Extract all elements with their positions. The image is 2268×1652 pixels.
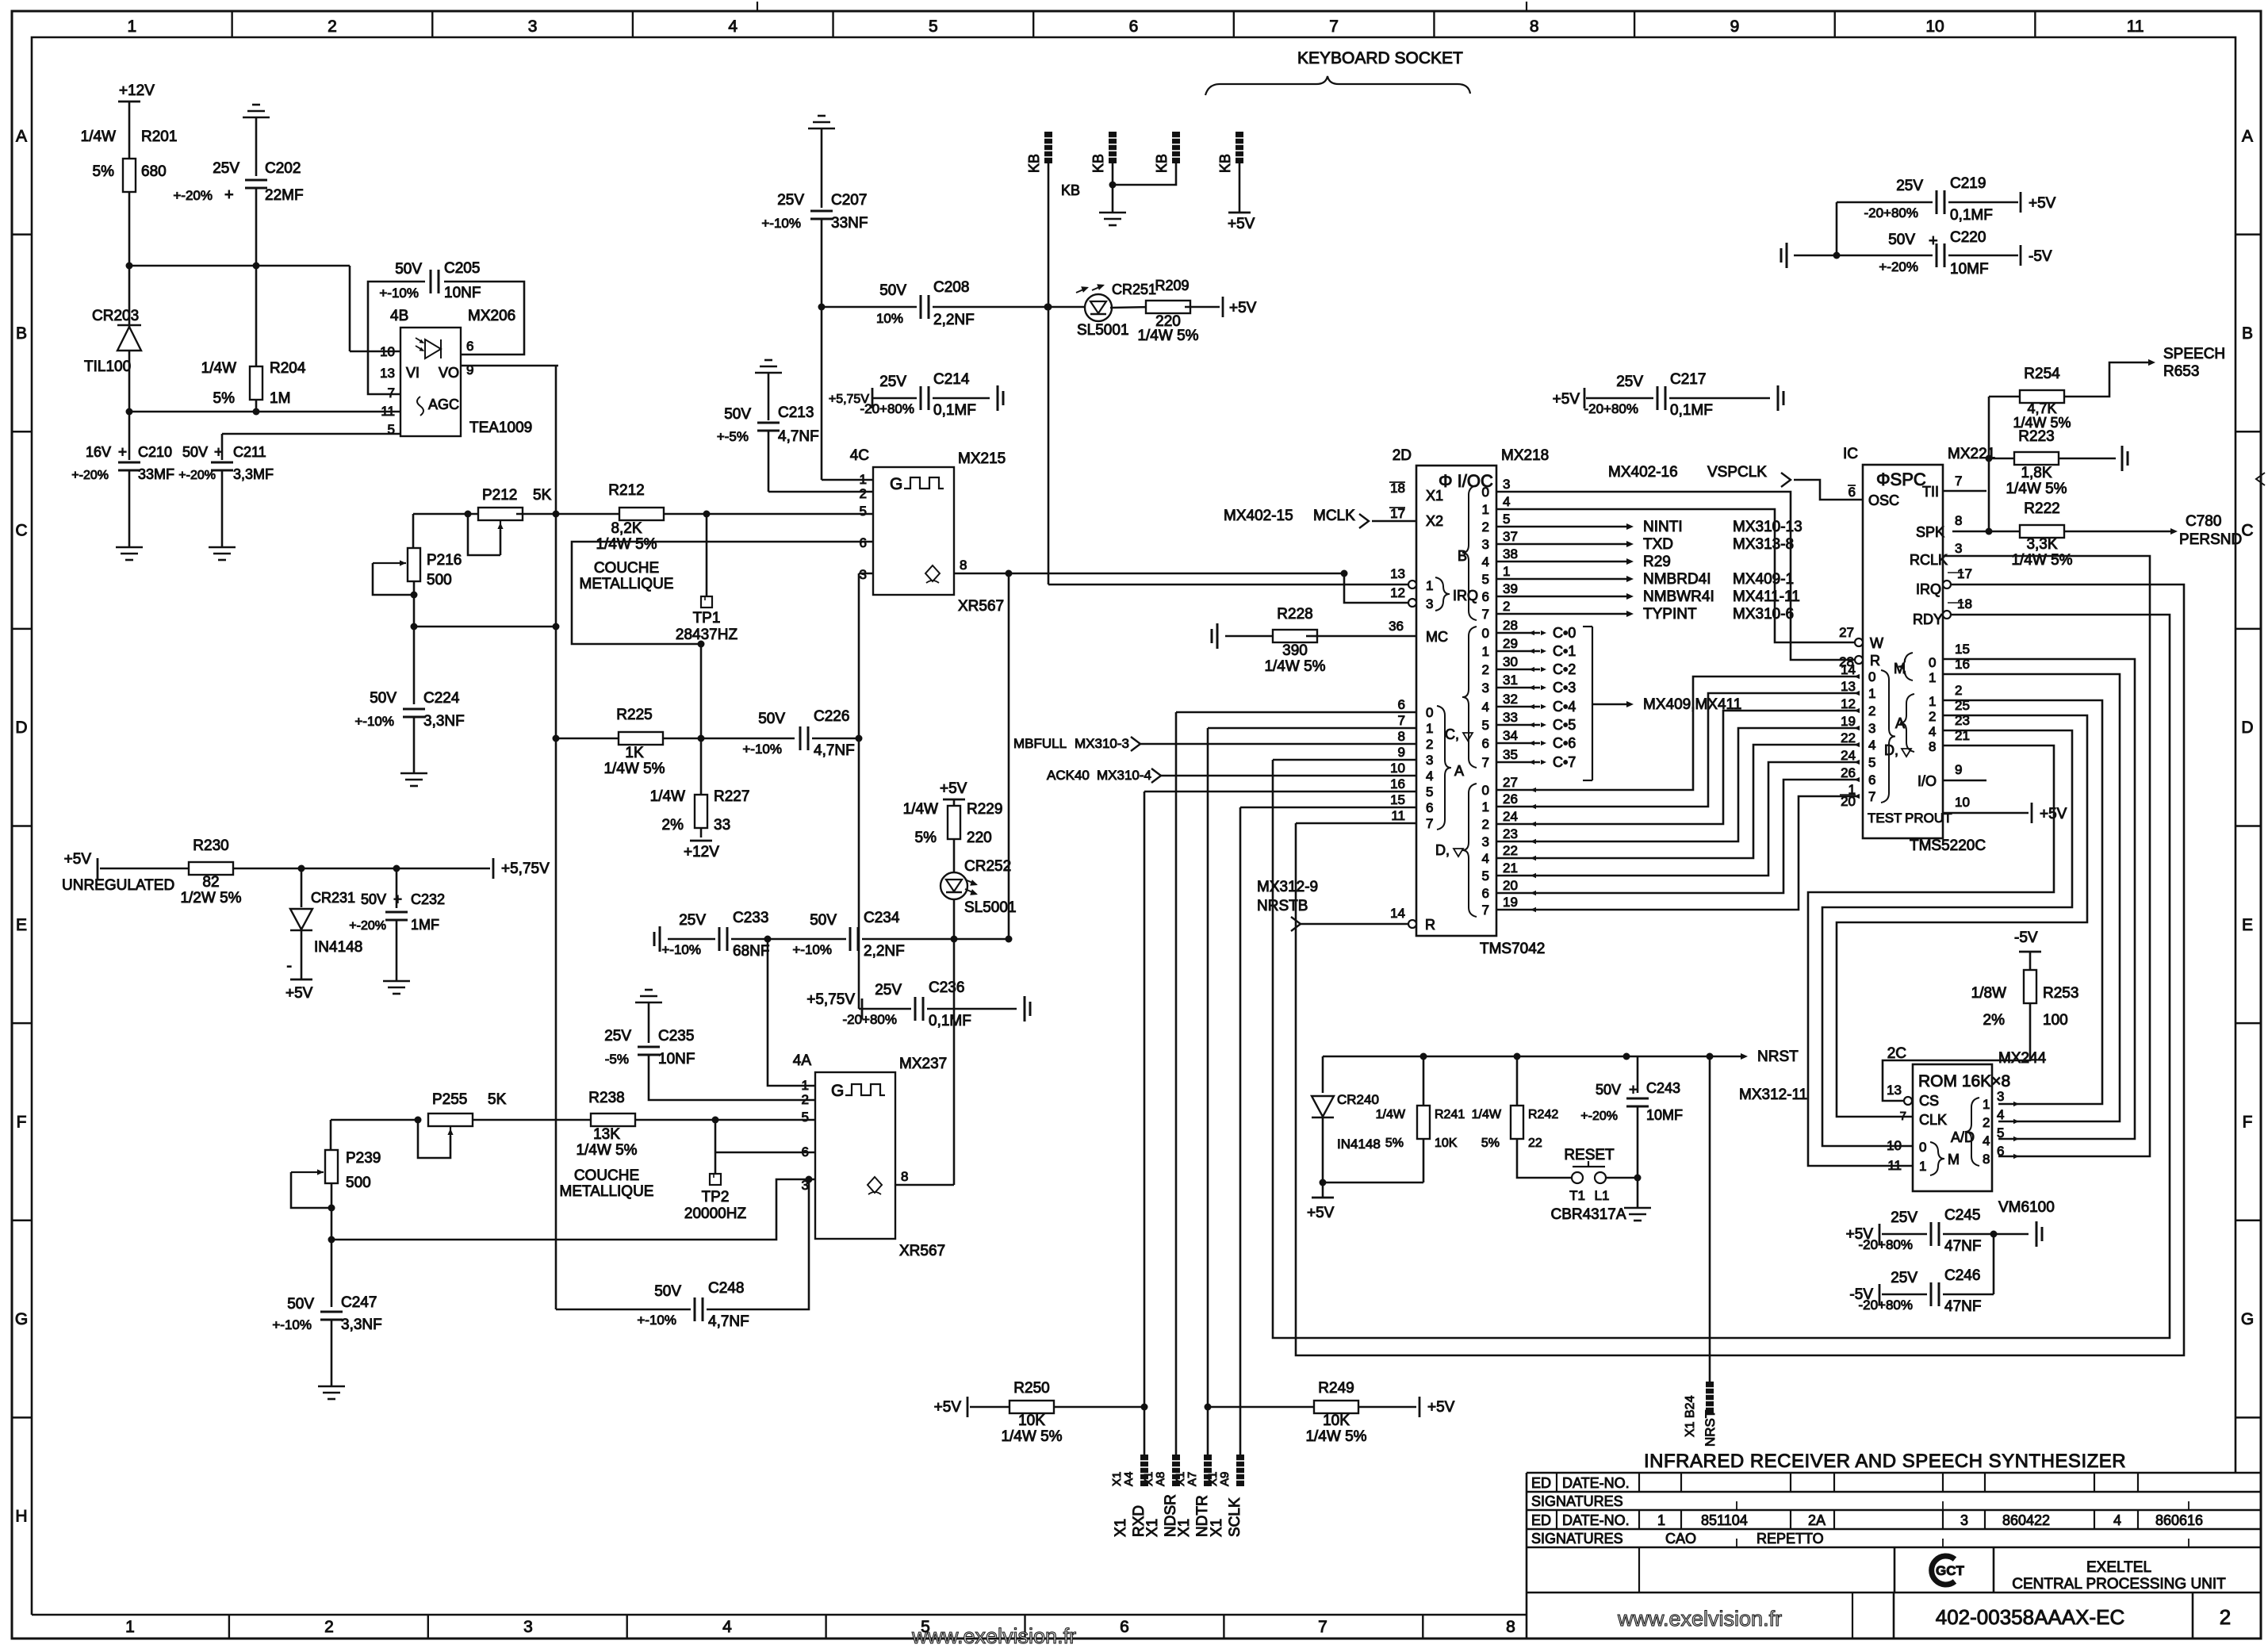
- svg-text:0: 0: [1482, 783, 1489, 798]
- svg-text:4,7NF: 4,7NF: [778, 428, 819, 445]
- svg-text:SPK: SPK: [1916, 524, 1944, 540]
- svg-text:1: 1: [1482, 799, 1489, 815]
- svg-text:+5V: +5V: [940, 780, 967, 797]
- svg-text:1/4W: 1/4W: [1472, 1108, 1502, 1121]
- svg-text:+5V: +5V: [1553, 391, 1580, 408]
- svg-text:C•7: C•7: [1553, 754, 1576, 770]
- svg-text:3: 3: [1426, 753, 1433, 768]
- svg-text:VSPCLK: VSPCLK: [1707, 464, 1767, 481]
- svg-text:IRQ: IRQ: [1453, 588, 1478, 604]
- svg-text:10MF: 10MF: [1646, 1107, 1683, 1123]
- svg-text:20: 20: [1503, 878, 1518, 893]
- svg-text:MX310-4: MX310-4: [1097, 768, 1151, 783]
- svg-text:23: 23: [1503, 826, 1518, 841]
- svg-text:GCT: GCT: [1936, 1563, 1965, 1578]
- svg-text:5: 5: [802, 1110, 809, 1125]
- svg-text:1: 1: [1426, 721, 1433, 736]
- svg-text:50V: 50V: [758, 711, 785, 727]
- svg-text:KB: KB: [1217, 154, 1233, 173]
- svg-text:X1: X1: [1113, 1519, 1129, 1537]
- svg-text:10K: 10K: [1323, 1412, 1350, 1429]
- svg-text:10K: 10K: [1435, 1136, 1458, 1150]
- svg-text:C224: C224: [423, 690, 460, 707]
- svg-text:MX310-3: MX310-3: [1075, 736, 1129, 751]
- svg-text:2: 2: [1482, 662, 1489, 677]
- svg-text:1: 1: [802, 1078, 809, 1093]
- svg-text:50V: 50V: [724, 406, 751, 423]
- svg-text:+-10%: +-10%: [354, 714, 394, 729]
- svg-text:6: 6: [466, 339, 473, 354]
- svg-text:X2: X2: [1426, 513, 1443, 529]
- svg-text:2: 2: [1482, 519, 1489, 535]
- svg-text:1/4W: 1/4W: [903, 801, 938, 818]
- svg-text:C245: C245: [1944, 1207, 1980, 1224]
- svg-text:B: B: [1458, 548, 1467, 564]
- svg-text:2: 2: [860, 486, 867, 501]
- svg-text:19: 19: [1841, 714, 1856, 729]
- svg-text:25V: 25V: [604, 1028, 631, 1044]
- svg-text:7: 7: [1482, 903, 1489, 918]
- svg-text:R254: R254: [2024, 366, 2060, 382]
- svg-text:2: 2: [1929, 709, 1936, 724]
- svg-text:A: A: [2242, 127, 2253, 145]
- svg-text:50V: 50V: [395, 261, 422, 278]
- svg-text:ED: ED: [1531, 1512, 1551, 1528]
- svg-text:MX237: MX237: [899, 1056, 947, 1072]
- svg-text:TIL100: TIL100: [84, 358, 131, 375]
- svg-text:+: +: [393, 891, 402, 908]
- svg-text:1/4W 5%: 1/4W 5%: [603, 761, 665, 777]
- svg-text:3: 3: [1482, 537, 1489, 552]
- svg-text:3,3NF: 3,3NF: [341, 1317, 382, 1333]
- svg-text:13: 13: [1841, 679, 1856, 694]
- svg-text:C205: C205: [444, 260, 480, 277]
- svg-text:0: 0: [1426, 705, 1433, 720]
- svg-text:390: 390: [1282, 642, 1308, 659]
- svg-text:-: -: [286, 957, 292, 975]
- svg-text:11: 11: [381, 404, 395, 419]
- svg-text:47NF: 47NF: [1944, 1238, 1981, 1255]
- svg-text:3: 3: [1426, 596, 1433, 611]
- svg-text:25V: 25V: [1891, 1209, 1917, 1226]
- svg-text:+5,75V: +5,75V: [501, 860, 550, 877]
- svg-text:+-20%: +-20%: [173, 188, 213, 203]
- svg-text:50V: 50V: [287, 1296, 314, 1313]
- svg-text:13K: 13K: [593, 1126, 620, 1143]
- svg-text:1: 1: [127, 17, 136, 36]
- svg-text:4C: 4C: [850, 447, 869, 464]
- svg-text:6: 6: [1997, 1144, 2004, 1159]
- svg-text:0,1MF: 0,1MF: [929, 1013, 971, 1029]
- svg-text:F: F: [2243, 1113, 2253, 1131]
- svg-text:10NF: 10NF: [444, 285, 481, 301]
- svg-text:3: 3: [1868, 721, 1875, 736]
- svg-text:1/4W: 1/4W: [201, 360, 236, 377]
- svg-text:C210: C210: [138, 444, 172, 460]
- svg-text:TMS5220C: TMS5220C: [1910, 837, 1986, 854]
- svg-text:VI: VI: [406, 365, 420, 381]
- svg-text:+5V: +5V: [1307, 1205, 1335, 1221]
- svg-text:10NF: 10NF: [658, 1051, 695, 1067]
- svg-text:1: 1: [1482, 502, 1489, 517]
- svg-text:0: 0: [1482, 626, 1489, 641]
- svg-text:D: D: [2241, 719, 2253, 737]
- svg-text:CENTRAL PROCESSING UNIT: CENTRAL PROCESSING UNIT: [2012, 1576, 2226, 1593]
- svg-text:MX221: MX221: [1948, 446, 1995, 462]
- svg-text:5: 5: [1503, 512, 1510, 527]
- svg-text:ROM 16K×8: ROM 16K×8: [1918, 1072, 2010, 1090]
- svg-text:9: 9: [1955, 762, 1962, 777]
- svg-text:+-20%: +-20%: [71, 469, 109, 482]
- svg-text:A: A: [16, 127, 27, 145]
- svg-text:1MF: 1MF: [411, 917, 439, 933]
- svg-text:3: 3: [1955, 541, 1962, 556]
- svg-text:82: 82: [202, 874, 219, 891]
- svg-text:500: 500: [427, 572, 452, 588]
- svg-text:17: 17: [1957, 566, 1972, 581]
- svg-text:UNREGULATED: UNREGULATED: [62, 877, 174, 894]
- svg-text:7: 7: [1955, 473, 1962, 489]
- svg-text:13: 13: [1390, 566, 1405, 581]
- svg-text:C236: C236: [929, 979, 964, 996]
- svg-text:R250: R250: [1013, 1380, 1049, 1397]
- svg-text:15: 15: [1955, 642, 1970, 657]
- svg-text:R653: R653: [2163, 363, 2199, 380]
- svg-text:-20+80%: -20+80%: [1584, 401, 1638, 416]
- svg-text:+5V: +5V: [2029, 195, 2056, 212]
- svg-text:29: 29: [1503, 636, 1518, 651]
- svg-text:1/4W 5%: 1/4W 5%: [1137, 328, 1198, 344]
- svg-text:C247: C247: [341, 1294, 377, 1311]
- svg-text:CAO: CAO: [1665, 1531, 1696, 1547]
- svg-text:C•1: C•1: [1553, 643, 1576, 659]
- svg-text:4: 4: [1868, 738, 1875, 753]
- svg-text:6: 6: [1848, 485, 1856, 500]
- svg-text:10: 10: [1390, 761, 1405, 776]
- svg-text:+: +: [1929, 232, 1938, 250]
- svg-text:402-00358AAAX-EC: 402-00358AAAX-EC: [1936, 1605, 2124, 1629]
- svg-text:5%: 5%: [93, 163, 115, 180]
- svg-text:D,: D,: [1884, 742, 1898, 758]
- svg-text:27: 27: [1839, 625, 1854, 640]
- svg-text:NRST: NRST: [1703, 1410, 1718, 1447]
- svg-text:5: 5: [1482, 868, 1489, 883]
- svg-text:RDY: RDY: [1913, 611, 1943, 627]
- svg-text:XR567: XR567: [899, 1243, 945, 1259]
- svg-text:KB: KB: [1154, 154, 1170, 173]
- svg-text:A9: A9: [1218, 1472, 1232, 1486]
- svg-text:C232: C232: [411, 891, 445, 907]
- svg-text:+12V: +12V: [684, 844, 719, 860]
- svg-text:7: 7: [1482, 755, 1489, 770]
- svg-text:5K: 5K: [533, 487, 552, 504]
- svg-text:5%: 5%: [1385, 1136, 1404, 1150]
- svg-text:30: 30: [1503, 654, 1518, 669]
- svg-text:R29: R29: [1643, 554, 1671, 570]
- svg-text:CR240: CR240: [1337, 1092, 1379, 1107]
- svg-text:L1: L1: [1595, 1188, 1610, 1203]
- svg-text:C211: C211: [233, 444, 266, 460]
- svg-text:+5,75V: +5,75V: [806, 991, 855, 1008]
- svg-text:1: 1: [1426, 578, 1433, 593]
- svg-text:-20+80%: -20+80%: [842, 1012, 897, 1027]
- svg-text:TXD: TXD: [1643, 536, 1673, 553]
- svg-text:68NF: 68NF: [733, 943, 769, 960]
- svg-text:0: 0: [1919, 1140, 1926, 1155]
- svg-text:SL5001: SL5001: [964, 899, 1017, 916]
- svg-text:MBFULL: MBFULL: [1013, 736, 1067, 751]
- svg-text:IC: IC: [1843, 446, 1858, 462]
- svg-text:0: 0: [1482, 485, 1489, 500]
- svg-text:10MF: 10MF: [1950, 261, 1989, 278]
- svg-text:4,7NF: 4,7NF: [708, 1313, 749, 1330]
- svg-text:SCLK: SCLK: [1227, 1497, 1243, 1537]
- svg-text:+5V: +5V: [934, 1399, 962, 1416]
- svg-text:PERSND: PERSND: [2179, 531, 2242, 548]
- svg-text:DATE-NO.: DATE-NO.: [1562, 1512, 1630, 1528]
- svg-text:MX402-15: MX402-15: [1224, 508, 1293, 524]
- svg-text:4: 4: [2113, 1512, 2121, 1528]
- svg-text:2: 2: [1955, 683, 1962, 698]
- svg-text:C243: C243: [1646, 1080, 1680, 1096]
- svg-text:4: 4: [1997, 1107, 2004, 1122]
- svg-text:G: G: [831, 1082, 844, 1100]
- svg-text:P216: P216: [427, 552, 462, 569]
- svg-text:50V: 50V: [810, 912, 837, 929]
- svg-text:1/4W 5%: 1/4W 5%: [576, 1142, 637, 1159]
- svg-text:1/4W 5%: 1/4W 5%: [1001, 1428, 1062, 1445]
- svg-text:EXELTEL: EXELTEL: [2086, 1559, 2151, 1576]
- svg-text:IN4148: IN4148: [1337, 1136, 1381, 1152]
- svg-text:3,3NF: 3,3NF: [423, 713, 465, 730]
- svg-text:28: 28: [1503, 618, 1518, 633]
- svg-text:14: 14: [1390, 906, 1405, 921]
- svg-text:50V: 50V: [1888, 232, 1915, 248]
- svg-text:VO: VO: [439, 365, 459, 381]
- svg-text:47NF: 47NF: [1944, 1298, 1981, 1315]
- svg-text:+: +: [1629, 1082, 1638, 1098]
- svg-text:26: 26: [1841, 765, 1856, 780]
- svg-text:1/4W 5%: 1/4W 5%: [2006, 481, 2067, 497]
- svg-text:+-10%: +-10%: [379, 286, 419, 301]
- svg-text:2: 2: [324, 1618, 334, 1636]
- svg-text:+-10%: +-10%: [761, 216, 801, 231]
- svg-text:METALLIQUE: METALLIQUE: [560, 1183, 654, 1200]
- svg-text:22: 22: [1503, 843, 1518, 858]
- svg-text:MX310-13: MX310-13: [1733, 519, 1803, 535]
- svg-text:13: 13: [1887, 1083, 1902, 1098]
- svg-text:2: 2: [802, 1092, 809, 1107]
- svg-text:I/O: I/O: [1917, 773, 1937, 789]
- svg-text:IN4148: IN4148: [314, 939, 362, 956]
- svg-text:www.exelvision.fr: www.exelvision.fr: [911, 1624, 1076, 1648]
- svg-text:24: 24: [1503, 809, 1518, 824]
- svg-text:14: 14: [1841, 662, 1856, 677]
- svg-text:2%: 2%: [662, 817, 684, 834]
- svg-text:25V: 25V: [1891, 1270, 1917, 1286]
- svg-text:C•4: C•4: [1553, 699, 1576, 715]
- svg-text:50V: 50V: [879, 282, 906, 299]
- svg-text:6: 6: [1482, 886, 1489, 901]
- svg-text:1: 1: [860, 472, 867, 487]
- svg-text:33MF: 33MF: [138, 466, 174, 482]
- svg-text:C248: C248: [708, 1280, 744, 1297]
- svg-text:MX409-1: MX409-1: [1733, 571, 1794, 588]
- svg-text:C219: C219: [1950, 175, 1986, 192]
- svg-text:MX215: MX215: [958, 450, 1006, 467]
- svg-text:1: 1: [1482, 644, 1489, 659]
- svg-text:C780: C780: [2186, 513, 2221, 530]
- svg-text:500: 500: [346, 1175, 371, 1191]
- svg-text:5: 5: [860, 504, 867, 519]
- svg-text:6: 6: [1482, 589, 1489, 604]
- svg-text:R253: R253: [2043, 985, 2078, 1002]
- svg-text:X1: X1: [1426, 488, 1443, 504]
- svg-text:5: 5: [1997, 1125, 2004, 1140]
- svg-text:1: 1: [125, 1618, 135, 1636]
- svg-text:8,2K: 8,2K: [611, 520, 642, 537]
- svg-text:680: 680: [141, 163, 167, 180]
- svg-text:F: F: [17, 1113, 27, 1131]
- svg-text:851104: 851104: [1701, 1512, 1748, 1528]
- svg-text:-20+80%: -20+80%: [1858, 1297, 1913, 1313]
- svg-text:D: D: [15, 719, 27, 737]
- svg-text:2D: 2D: [1393, 447, 1412, 464]
- svg-text:C: C: [15, 522, 27, 540]
- svg-text:6: 6: [1398, 697, 1405, 712]
- svg-text:4: 4: [1482, 700, 1489, 715]
- svg-text:3: 3: [1503, 477, 1510, 492]
- svg-text:0: 0: [1868, 669, 1875, 684]
- svg-text:+-20%: +-20%: [1580, 1110, 1618, 1123]
- svg-text:26: 26: [1503, 792, 1518, 807]
- svg-text:1: 1: [1657, 1512, 1665, 1528]
- svg-text:33NF: 33NF: [831, 215, 868, 232]
- svg-text:1: 1: [1848, 782, 1856, 797]
- svg-text:+-10%: +-10%: [272, 1317, 312, 1332]
- svg-text:+5V: +5V: [1427, 1399, 1455, 1416]
- svg-text:5%: 5%: [915, 830, 937, 846]
- svg-text:T1: T1: [1569, 1188, 1585, 1203]
- svg-text:R: R: [1870, 653, 1880, 669]
- svg-text:12: 12: [1390, 585, 1405, 600]
- svg-text:TP2: TP2: [702, 1189, 730, 1205]
- svg-text:CS: CS: [1919, 1093, 1939, 1109]
- svg-text:C235: C235: [658, 1028, 694, 1044]
- svg-text:C: C: [2241, 522, 2253, 540]
- svg-text:VM6100: VM6100: [1998, 1199, 2055, 1216]
- svg-text:ΦSPC: ΦSPC: [1876, 470, 1926, 489]
- svg-text:R228: R228: [1277, 606, 1312, 623]
- svg-text:4: 4: [1983, 1133, 1990, 1148]
- svg-text:-20+80%: -20+80%: [860, 401, 914, 416]
- svg-text:CLK: CLK: [1919, 1112, 1947, 1128]
- svg-text:R209: R209: [1155, 278, 1189, 293]
- svg-text:7: 7: [1482, 607, 1489, 622]
- svg-text:CR231: CR231: [311, 890, 355, 906]
- svg-text:C208: C208: [933, 279, 969, 296]
- svg-text:R212: R212: [608, 482, 644, 499]
- svg-text:E: E: [2242, 916, 2253, 934]
- svg-text:MX206: MX206: [468, 308, 515, 324]
- svg-text:6: 6: [1868, 772, 1875, 788]
- svg-text:+: +: [214, 444, 223, 461]
- svg-text:9: 9: [1730, 17, 1740, 36]
- svg-text:8: 8: [960, 558, 967, 573]
- svg-text:OSC: OSC: [1868, 493, 1899, 508]
- svg-text:25V: 25V: [679, 912, 706, 929]
- svg-text:SIGNATURES: SIGNATURES: [1531, 1493, 1623, 1509]
- svg-text:G: G: [2241, 1310, 2254, 1328]
- svg-text:50V: 50V: [654, 1283, 681, 1300]
- svg-text:C202: C202: [265, 160, 301, 177]
- svg-text:8: 8: [1398, 729, 1405, 744]
- svg-text:4: 4: [1482, 554, 1489, 569]
- svg-text:R225: R225: [616, 707, 652, 723]
- svg-text:H: H: [15, 1508, 27, 1526]
- svg-text:3: 3: [523, 1618, 533, 1636]
- svg-text:28437HZ: 28437HZ: [676, 627, 738, 643]
- svg-text:16V: 16V: [86, 444, 111, 460]
- svg-text:R: R: [1425, 917, 1435, 933]
- svg-text:1/2W 5%: 1/2W 5%: [180, 890, 241, 906]
- svg-text:22: 22: [1528, 1136, 1542, 1150]
- svg-text:1: 1: [1929, 694, 1936, 709]
- svg-text:METALLIQUE: METALLIQUE: [580, 576, 674, 592]
- svg-text:+5V: +5V: [1228, 216, 1255, 232]
- svg-text:4A: 4A: [793, 1052, 812, 1069]
- svg-text:860422: 860422: [2002, 1512, 2050, 1528]
- svg-text:3: 3: [1960, 1512, 1968, 1528]
- svg-text:R222: R222: [2024, 500, 2059, 517]
- svg-text:4: 4: [1482, 851, 1489, 866]
- svg-text:C•2: C•2: [1553, 661, 1576, 677]
- svg-text:X1: X1: [1144, 1519, 1161, 1537]
- svg-text:C226: C226: [814, 708, 849, 725]
- svg-text:1/4W: 1/4W: [1376, 1108, 1406, 1121]
- svg-text:+-10%: +-10%: [742, 742, 782, 757]
- svg-text:A7: A7: [1186, 1472, 1199, 1486]
- svg-text:C213: C213: [778, 404, 814, 421]
- svg-text:C,: C,: [1445, 726, 1459, 742]
- svg-text:CR203: CR203: [92, 308, 139, 324]
- svg-text:1/4W 5%: 1/4W 5%: [596, 536, 657, 553]
- svg-text:-20+80%: -20+80%: [1858, 1237, 1913, 1252]
- svg-text:-5%: -5%: [605, 1052, 629, 1067]
- svg-text:20000HZ: 20000HZ: [684, 1205, 747, 1222]
- svg-text:+-10%: +-10%: [792, 942, 832, 957]
- svg-text:7: 7: [1868, 789, 1875, 804]
- svg-text:10: 10: [1925, 17, 1944, 36]
- svg-text:1/8W: 1/8W: [1971, 985, 2006, 1002]
- svg-text:SPEECH: SPEECH: [2163, 346, 2225, 362]
- svg-text:8: 8: [901, 1169, 908, 1184]
- svg-text:1/4W: 1/4W: [650, 788, 685, 805]
- svg-text:4: 4: [1426, 769, 1433, 784]
- svg-text:CR251: CR251: [1112, 282, 1156, 297]
- svg-text:24: 24: [1841, 748, 1856, 763]
- svg-text:2: 2: [328, 17, 337, 36]
- svg-text:TMS7042: TMS7042: [1480, 941, 1545, 957]
- svg-text:+-20%: +-20%: [349, 919, 386, 933]
- svg-text:+5V: +5V: [64, 851, 92, 868]
- svg-text:25V: 25V: [213, 160, 239, 177]
- svg-text:7: 7: [1329, 17, 1339, 36]
- svg-text:2: 2: [1983, 1115, 1990, 1130]
- svg-text:25V: 25V: [879, 374, 906, 390]
- svg-text:C•0: C•0: [1553, 625, 1576, 641]
- svg-text:5%: 5%: [1481, 1136, 1500, 1150]
